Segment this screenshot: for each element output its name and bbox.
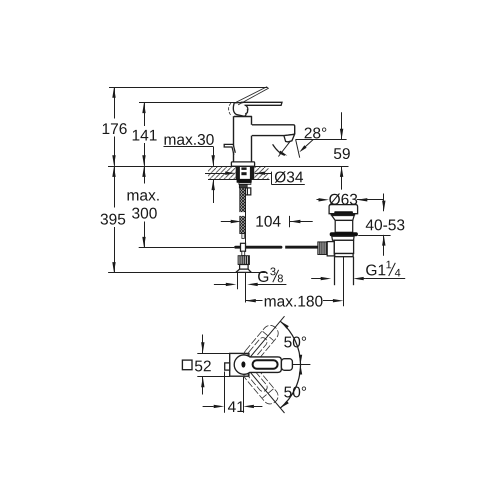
dim max.300 vertical line	[144, 166, 146, 183]
drain neck	[335, 220, 353, 232]
label square 52	[182, 360, 192, 370]
dim 395 bottom reference line	[108, 272, 265, 274]
phantom lever rotated up 50 deg	[241, 322, 281, 366]
pop-up rod bracket	[246, 188, 251, 195]
label G1 1/4 with fraction	[366, 264, 385, 275]
rubber seal ring	[330, 232, 358, 236]
pop-up waste dome cap	[329, 205, 358, 214]
water stream left line	[278, 141, 290, 156]
drain skirt under seal	[332, 236, 354, 240]
hose crimp sleeve	[239, 184, 247, 188]
50 deg arc bottom	[280, 365, 300, 408]
phantom lever rotated down 50 deg	[241, 363, 281, 407]
drain bottom cap ring	[335, 254, 353, 257]
plan view lever handle with pivot circle	[234, 355, 281, 374]
label 59	[334, 148, 350, 159]
dim 141 extension line	[139, 102, 237, 104]
dim 176 top extension line	[109, 87, 267, 89]
plan view lever slot	[253, 360, 278, 369]
flexible braided supply hose	[240, 188, 246, 234]
dim 176 vertical line	[114, 87, 116, 119]
countertop bottom surface line	[208, 179, 270, 181]
countertop hatching left of faucet shank	[208, 167, 236, 179]
pop-up horizontal rod	[234, 246, 282, 249]
plan view horizontal centerline	[293, 364, 311, 366]
phantom handle swing arc left of cartridge	[229, 103, 232, 116]
phantom raised lever handle outline	[236, 87, 268, 105]
tailpipe centerline	[343, 257, 345, 307]
label 40-53	[366, 219, 405, 230]
label 141	[133, 130, 157, 141]
mounting locknut under counter	[237, 179, 252, 183]
pop-up vertical rod	[245, 195, 247, 243]
plan view 50 deg diagonal lines	[250, 316, 284, 357]
countertop hatching right of faucet shank	[254, 167, 268, 179]
cartridge housing blob under handle	[233, 103, 248, 117]
washer	[239, 183, 251, 185]
dim max.180 horizontal line	[245, 299, 256, 302]
dim diameter 63 horizontal line	[317, 199, 321, 201]
threaded shank through counter	[236, 167, 240, 179]
label diameter 63	[329, 194, 357, 205]
label 104	[256, 216, 280, 227]
dim 104 right extension tick	[289, 216, 291, 227]
label 28 degrees with leader	[305, 127, 327, 138]
dim 141 vertical line	[144, 102, 146, 126]
dim 40-53 vertical line	[383, 194, 385, 212]
label 41	[228, 401, 244, 412]
water stream right line	[296, 139, 300, 157]
dim 40-53 seal extension line	[358, 235, 390, 237]
G3/8 connection cone	[236, 269, 252, 272]
dim square 52 extension lines	[197, 353, 230, 355]
faucet body column	[233, 116, 235, 162]
drain flange base ring	[331, 214, 356, 216]
faucet spout arm	[252, 125, 295, 136]
pop-up rod knob at rear of body	[224, 144, 235, 154]
aerator mousseur at spout outlet	[284, 134, 295, 142]
ball rod knurled nut	[318, 242, 327, 255]
dim diameter 34 leader and label	[205, 173, 225, 175]
50 deg arc top	[280, 321, 300, 364]
dim max.300 bottom reference line	[139, 247, 235, 249]
plan view lever end stub	[281, 359, 292, 371]
dim 41 extension lines	[224, 372, 226, 413]
dim max.30 label and leader	[165, 134, 214, 145]
plan view pop-up knob tab	[225, 363, 230, 370]
plan view square escutcheon	[230, 353, 249, 376]
countertop top surface line	[108, 166, 349, 168]
ball rod housing	[327, 242, 334, 256]
lever handle horizontal bar	[242, 102, 282, 105]
hose end knurled nut	[238, 256, 249, 265]
dim 41 horizontal line with arrows	[203, 406, 214, 408]
label 50 deg top	[284, 336, 306, 347]
drain taper	[332, 216, 355, 221]
label 50 deg bottom	[284, 386, 306, 397]
label G3/8 with fraction	[258, 271, 268, 282]
label max. 300	[128, 192, 159, 200]
dim 59 vertical line	[341, 112, 343, 139]
water stream curved direction arrow	[273, 144, 285, 155]
label max.180	[265, 296, 323, 307]
G3/8 thread stub lines	[237, 272, 239, 289]
drain body	[334, 240, 353, 253]
dim 104 horizontal line	[221, 221, 231, 223]
plan view pivot dot	[241, 361, 245, 367]
dim square 52 arrows	[202, 335, 204, 354]
tailpipe walls	[334, 257, 336, 286]
dim 395 vertical line	[114, 166, 116, 207]
rod cross joint at faucet	[241, 243, 246, 251]
hose end ring	[240, 265, 249, 270]
label 176	[103, 123, 127, 134]
label 395	[101, 214, 126, 225]
base plate escutcheon	[231, 162, 254, 166]
